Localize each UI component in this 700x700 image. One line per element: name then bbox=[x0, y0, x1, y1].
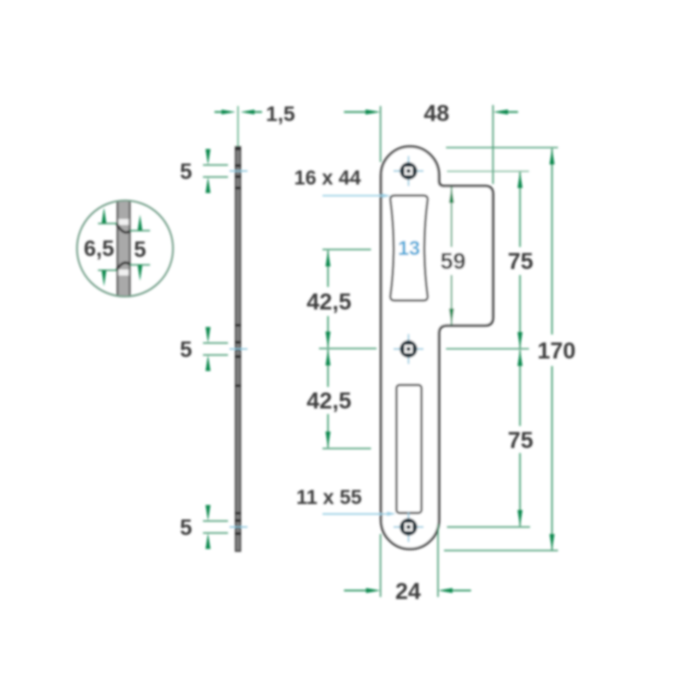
svg-text:1,5: 1,5 bbox=[266, 103, 296, 126]
svg-text:13: 13 bbox=[398, 238, 420, 260]
svg-text:75: 75 bbox=[508, 248, 534, 274]
dim 5 middle bbox=[203, 342, 228, 344]
plate outline bbox=[381, 147, 493, 550]
svg-text:5: 5 bbox=[180, 159, 192, 184]
svg-text:5: 5 bbox=[180, 515, 192, 540]
svg-text:5: 5 bbox=[180, 337, 192, 362]
screw hole middle bbox=[394, 334, 424, 364]
svg-text:11 x 55: 11 x 55 bbox=[296, 487, 362, 509]
screw hole bottom bbox=[394, 512, 424, 542]
svg-text:24: 24 bbox=[395, 578, 421, 604]
dim 1,5 arrows bbox=[215, 111, 231, 113]
dim 5 arrows (circle) bbox=[138, 215, 143, 231]
center extension line bbox=[237, 106, 239, 147]
hole edge marks bbox=[235, 148, 240, 535]
countersink top arc bbox=[117, 224, 131, 233]
svg-text:5: 5 bbox=[134, 237, 146, 262]
svg-text:48: 48 bbox=[424, 100, 450, 126]
screw hole top bbox=[394, 156, 424, 186]
svg-text:59: 59 bbox=[440, 248, 466, 274]
dim 5 ticks (circle) bbox=[130, 230, 150, 232]
svg-text:42,5: 42,5 bbox=[307, 388, 352, 414]
bar edges bbox=[117, 201, 119, 297]
svg-text:170: 170 bbox=[537, 338, 575, 364]
deadbolt cutout 11x55 bbox=[397, 385, 422, 513]
dim 6,5 arrows bbox=[102, 208, 107, 224]
side plate bar bbox=[236, 147, 241, 551]
white hole slivers bbox=[118, 219, 130, 225]
svg-text:42,5: 42,5 bbox=[307, 289, 352, 315]
svg-text:16 x 44: 16 x 44 bbox=[294, 168, 362, 190]
detail circle outline bbox=[77, 201, 173, 297]
dim 5 bottom bbox=[203, 520, 228, 522]
dim 6,5 ticks bbox=[98, 223, 117, 225]
blue crosshairs on side bar bbox=[230, 170, 248, 172]
dim 5 top bbox=[203, 164, 228, 166]
section bar gray fill bbox=[117, 201, 130, 297]
latch cutout 16x44 bbox=[390, 196, 427, 301]
svg-text:75: 75 bbox=[508, 427, 534, 453]
countersink bottom arc bbox=[117, 263, 131, 271]
svg-text:6,5: 6,5 bbox=[84, 236, 115, 261]
